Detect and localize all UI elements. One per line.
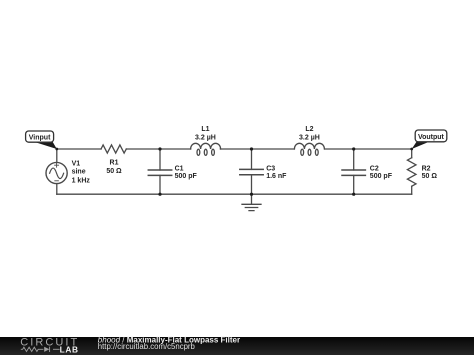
svg-text:500 pF: 500 pF [370,173,393,180]
node Vinput corner [55,148,58,151]
ground [242,194,261,210]
flag pointer Voutput [412,142,429,149]
svg-text:L2: L2 [305,126,313,133]
svg-text:500 pF: 500 pF [175,173,198,180]
wire C2 bottom lead [353,175,355,194]
node dot top C1 [158,147,161,150]
svg-text:L1: L1 [201,126,209,133]
svg-text:50 Ω: 50 Ω [106,168,122,175]
wire R2 top lead [411,149,413,158]
wire top: L1 to L2 [220,148,294,150]
svg-text:http://circuitlab.com/c5ncprb: http://circuitlab.com/c5ncprb [98,342,196,351]
wire C3 top lead [251,149,253,169]
svg-text:V1: V1 [72,161,81,168]
svg-text:Vinput: Vinput [29,134,51,141]
wire top: L2 to R2 corner [325,148,412,150]
wire top: Vinput corner to R1 [57,148,101,150]
wire left: corner down to V1 top [56,149,58,162]
svg-text:C1: C1 [175,165,184,172]
logo diode [44,347,49,352]
wire top: R1 to C1 node [126,148,190,150]
flag box Voutput [415,130,447,142]
inductor L2 [294,143,324,149]
wire left: V1 bottom to bottom rail [56,184,58,195]
svg-text:sine: sine [72,169,86,176]
svg-text:1.6 nF: 1.6 nF [266,173,287,180]
wire bottom rail [57,193,412,195]
inductor L1 [191,143,221,149]
flag box Vinput [26,131,54,142]
capacitor C1 [148,170,171,175]
svg-text:R2: R2 [422,165,431,172]
svg-text:50 Ω: 50 Ω [422,173,438,180]
svg-text:1 kHz: 1 kHz [72,178,91,185]
node dot bottom C1 [158,193,161,196]
svg-text:LAB: LAB [60,344,79,354]
wire C1 bottom lead [159,175,161,194]
svg-text:C2: C2 [370,165,379,172]
node dot bottom C2 [352,193,355,196]
svg-text:Voutput: Voutput [418,134,445,141]
source V1 plus [55,163,59,167]
source V1 circle [46,162,67,183]
svg-text:3.2 µH: 3.2 µH [195,134,216,141]
wire C1 top lead [159,149,161,170]
node dot top C3 [250,147,253,150]
svg-text:R1: R1 [110,159,119,166]
source V1 sine [50,168,64,179]
resistor R1 [101,145,126,153]
node Voutput corner [410,148,413,151]
flag pointer Vinput [36,142,57,149]
source V1 minus [55,180,59,182]
wire C2 top lead [353,149,355,170]
capacitor C3 [240,169,263,174]
svg-text:3.2 µH: 3.2 µH [299,134,320,141]
svg-text:C3: C3 [266,165,275,172]
wire C3 bottom lead [251,175,253,194]
capacitor C2 [342,170,365,175]
resistor R2 [407,158,416,187]
node dot bottom C3 [250,193,253,196]
wire R2 bottom lead [411,186,413,194]
node dot top C2 [352,147,355,150]
logo schematic line [21,347,60,352]
